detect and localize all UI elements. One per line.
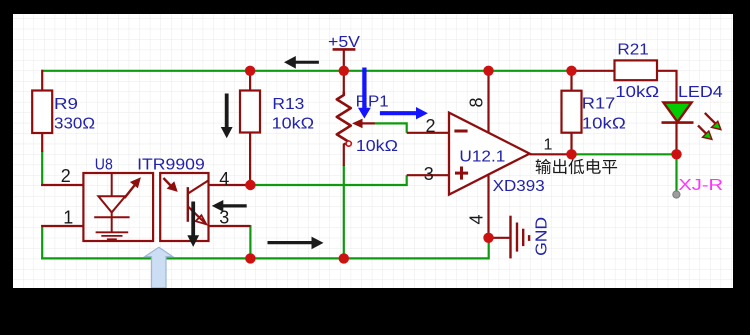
svg-text:8: 8 — [467, 97, 487, 107]
LED emission arrow 1 — [705, 113, 721, 130]
opto receive arrow — [163, 178, 177, 192]
svg-text:4: 4 — [467, 214, 487, 224]
svg-text:330Ω: 330Ω — [54, 116, 95, 133]
svg-text:1: 1 — [544, 136, 553, 153]
junction dot top at R13 — [245, 66, 255, 76]
svg-text:3: 3 — [219, 208, 229, 228]
svg-text:U12.1: U12.1 — [459, 148, 505, 165]
resistor R17 — [562, 91, 582, 133]
junction dot top at +5V/RP1 — [339, 66, 349, 76]
svg-text:R13: R13 — [272, 96, 304, 113]
svg-text:R21: R21 — [617, 42, 649, 59]
junction dot pin4/GND — [483, 233, 493, 243]
frame: right black strip — [733, 0, 750, 335]
svg-text:10kΩ: 10kΩ — [356, 138, 398, 155]
pin wire: RP1 top lead — [343, 71, 345, 93]
svg-text:+5V: +5V — [328, 34, 360, 51]
comparator plus input — [455, 167, 468, 180]
annotation text 输出低电平 — [536, 159, 618, 174]
pin wire: opto pin 2 horizontal — [41, 184, 83, 186]
frame: bottom black bar — [0, 288, 750, 335]
power stem: +5V to top net — [343, 49, 345, 70]
opto LED cathode bar — [94, 216, 129, 218]
wire: pin4 node to comparator pin3 — [250, 175, 406, 185]
LED LED4 triangle — [663, 103, 691, 122]
wire: bottom horizontal net — [41, 238, 489, 259]
opto LED stem — [111, 212, 113, 232]
junction dot bottom at RP1 — [339, 253, 349, 263]
annotation black arrow right (bottom) — [268, 237, 324, 250]
svg-text:ITR9909: ITR9909 — [137, 157, 205, 174]
svg-text:10kΩ: 10kΩ — [272, 116, 315, 133]
frame: left black strip — [0, 0, 13, 335]
opto emission arrow — [125, 177, 141, 198]
annotation black arrow down (opto) — [187, 202, 199, 247]
annotation blue arrow right (comparator pin2) — [380, 107, 428, 119]
wire: comparator output net segment — [572, 153, 677, 155]
svg-text:10kΩ: 10kΩ — [615, 84, 659, 101]
wire: opto pin3 drop at x=250 — [249, 225, 251, 258]
pin wire: comparator pin 2 horizontal — [407, 132, 449, 134]
pin wire: opto pin 1 horizontal — [41, 225, 83, 227]
schematic canvas background — [13, 14, 733, 288]
junction dot opto pin4 / R13 — [245, 180, 255, 190]
pin wire: R21 right lead to LED corner — [657, 71, 677, 104]
pin wire: R13 top lead — [249, 70, 251, 92]
resistor R9 — [32, 91, 52, 134]
svg-text:XJ-R: XJ-R — [678, 177, 723, 194]
unconnected pin dot XJ-R — [673, 191, 680, 198]
svg-text:U8: U8 — [95, 157, 113, 174]
potentiometer RP1 terminal circle — [346, 141, 351, 146]
pin wire: R9 bottom lead — [41, 132, 43, 152]
LED LED4 cathode bar — [662, 121, 694, 124]
wire: top horizontal net — [42, 70, 571, 72]
annotation light-blue block arrow up (bottom) — [145, 247, 173, 288]
junction dot bottom at x250 — [245, 253, 255, 263]
optocoupler U8 left box (LED side) — [83, 173, 153, 241]
opto earth bar 1 — [96, 231, 129, 233]
frame: top black bar — [0, 0, 750, 14]
svg-text:XD393: XD393 — [493, 178, 545, 195]
pin wire: R17 bottom lead — [570, 132, 572, 154]
pin wire: R13 bottom lead — [249, 132, 251, 185]
svg-text:3: 3 — [424, 164, 434, 184]
pin wire: comparator pin 3 horizontal — [407, 174, 449, 176]
resistor R21 — [615, 60, 658, 80]
svg-text:10kΩ: 10kΩ — [582, 115, 626, 132]
pin wire: opto pin 3 horizontal — [209, 225, 251, 227]
svg-text:1: 1 — [63, 208, 73, 228]
opto earth bar 2 — [101, 235, 122, 237]
annotation black arrow left (opto pin3) — [212, 200, 247, 212]
opto phototransistor collector — [188, 181, 208, 194]
resistor R13 — [240, 91, 260, 133]
LED emission arrow 2 — [698, 126, 712, 140]
junction dot top at pin8 — [483, 66, 493, 76]
svg-text:2: 2 — [61, 166, 71, 186]
annotation black arrow down (R13) — [221, 94, 233, 139]
pin wire: comparator output pin 1 — [530, 153, 572, 155]
potentiometer RP1 zigzag — [337, 92, 351, 144]
pin wire: R9 top lead — [41, 70, 43, 92]
opto LED anode bar line — [111, 173, 113, 196]
svg-text:R9: R9 — [54, 96, 78, 113]
opto earth bar 3 — [107, 238, 117, 240]
+5V power bar — [333, 48, 356, 51]
svg-text:LED4: LED4 — [678, 84, 723, 101]
wire: R9 lower vertical green segment — [41, 151, 43, 186]
pin wire: R17 top lead — [570, 70, 572, 92]
pin wire: opto pin 4 horizontal — [209, 184, 251, 186]
svg-text:R17: R17 — [582, 96, 616, 113]
pin wire: comparator pin 4 vertical — [487, 176, 489, 238]
wire: RP1 bottom drop to bottom net — [343, 165, 345, 258]
wire: RP1 wiper to comparator pin2 — [374, 123, 407, 132]
svg-text:2: 2 — [426, 116, 436, 136]
comparator U12.1 triangle — [449, 113, 530, 195]
wire: LED cathode net drop to XJ-R pin — [675, 154, 677, 192]
svg-text:4: 4 — [219, 169, 229, 189]
pin wire: RP1 bottom lead — [343, 144, 345, 167]
pin wire: LED cathode lead — [675, 123, 677, 155]
annotation blue arrow down (RP1) — [358, 68, 371, 119]
annotation black arrow left (top) — [284, 56, 319, 69]
ground symbol GND — [511, 216, 530, 259]
pin wire: comparator pin 8 vertical — [487, 71, 489, 133]
pin wire: GND stem — [489, 237, 511, 239]
comparator minus input bar — [454, 130, 467, 133]
potentiometer RP1 wiper arrow — [352, 119, 375, 129]
junction dot output at R17 — [566, 149, 576, 159]
pin wire: R21 left lead — [572, 70, 616, 72]
opto phototransistor emitter with arrowhead — [188, 207, 206, 225]
svg-text:GND: GND — [534, 217, 551, 256]
wire: opto pin1 drop to bottom net — [41, 225, 43, 260]
optocoupler U8 right box (transistor side) — [160, 173, 208, 241]
junction dot top at R17/R21 — [566, 66, 576, 76]
opto phototransistor base bar — [187, 187, 189, 222]
junction dot output at LED — [671, 149, 681, 159]
opto LED triangle — [98, 196, 125, 212]
